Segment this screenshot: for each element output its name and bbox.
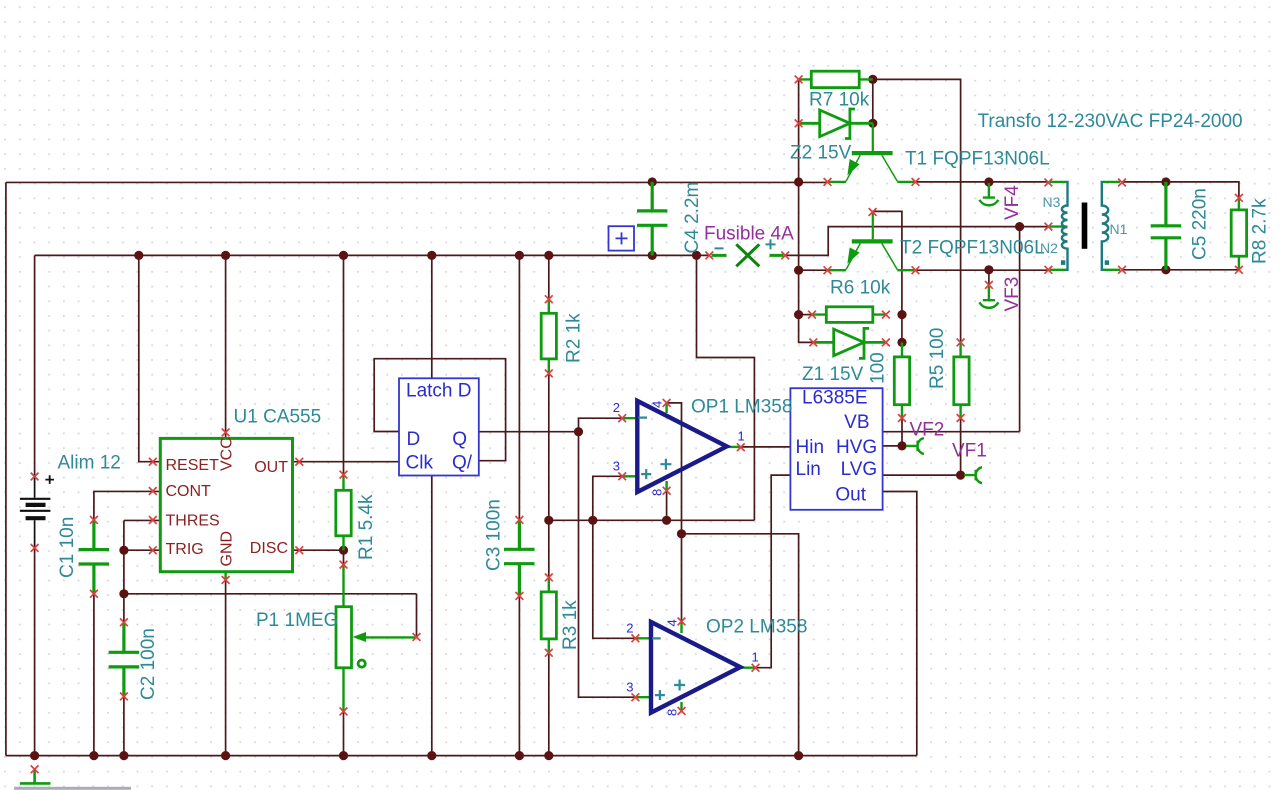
wire pin3col to OP2 pin2 (593, 520, 636, 638)
svg-text:R2 1k: R2 1k (564, 313, 585, 363)
node wiper junction (119, 589, 128, 598)
probe VF1 (964, 467, 982, 483)
svg-text:VF1: VF1 (952, 441, 987, 462)
wire T2 emitter row (799, 269, 828, 271)
wire DISC row (293, 550, 344, 564)
op-amp OP1 pin stubs (622, 403, 741, 491)
wire Out row down to rail (883, 492, 917, 756)
svg-text:DISC: DISC (250, 540, 288, 557)
svg-text:TRIG: TRIG (166, 541, 204, 558)
svg-text:1: 1 (738, 429, 745, 444)
wire CONT to C1 (94, 491, 160, 519)
wire wiper row (124, 594, 417, 637)
wire Latch bottom column (431, 476, 433, 756)
wire left border vertical (5, 182, 7, 755)
svg-text:4: 4 (665, 619, 680, 626)
IC Latch D box (399, 378, 479, 475)
wire N1 bottom to C5 R8 (1122, 269, 1239, 271)
wire R7 right to R5 top (873, 79, 961, 342)
IC L6385E box (790, 388, 882, 510)
resistor R1 5.4k (336, 475, 351, 551)
wire T1 collector to N3 (916, 181, 1049, 183)
winding N3 N2 left (1062, 182, 1068, 270)
svg-text:CONT: CONT (166, 483, 212, 500)
svg-text:Z2 15V: Z2 15V (790, 143, 852, 164)
svg-text:R8 2.7k: R8 2.7k (1250, 198, 1271, 264)
svg-text:LVG: LVG (841, 459, 878, 480)
winding N1 right (1102, 182, 1108, 270)
node center tap junction (1015, 222, 1024, 231)
wire LVG row (883, 474, 961, 476)
wire RESET column (139, 255, 161, 461)
resistor R5 100 (954, 342, 969, 418)
svg-text:C5 220n: C5 220n (1190, 188, 1211, 260)
node VF3 junction (984, 265, 993, 274)
wire row 520 (549, 519, 755, 521)
node R6 left junction (794, 310, 803, 319)
resistor 100 (894, 342, 909, 418)
wire rail1 top +12V (6, 181, 828, 183)
wire R6 left stub (799, 314, 812, 316)
capacitor C3 100n (504, 520, 535, 596)
ground (20, 769, 51, 783)
wire GND column (225, 580, 227, 756)
capacitor C4 2.2m (637, 182, 667, 255)
op-amp OP1 signs (639, 418, 672, 480)
wire fuse+ to center tap (785, 227, 1048, 256)
svg-text:C3 100n: C3 100n (484, 499, 505, 571)
wire OP1 out to Hin (741, 446, 791, 448)
wire OP1 pin8 down (666, 491, 668, 521)
op-amp OP1 LM358 (637, 401, 726, 492)
resistor R8 2.7k (1231, 198, 1246, 270)
svg-text:VF4: VF4 (1002, 185, 1023, 220)
wire C3 column (518, 255, 520, 755)
svg-text:Clk: Clk (406, 453, 434, 474)
transformer stubs (1050, 182, 1120, 270)
svg-text:HVG: HVG (836, 437, 877, 458)
node C5 bottom junction (1161, 265, 1170, 274)
svg-text:Q/: Q/ (452, 453, 473, 474)
zener Z2 15V (799, 109, 873, 139)
wire T2 collector to N2 (916, 269, 1049, 271)
svg-text:OUT: OUT (254, 459, 288, 476)
svg-text:N1: N1 (1110, 221, 1128, 237)
wire OP1 pin3 column (593, 476, 622, 520)
svg-text:3: 3 (613, 459, 620, 474)
svg-text:2: 2 (613, 400, 620, 415)
wire HVG row (883, 445, 902, 447)
polarity squares (1061, 260, 1065, 265)
svg-text:N3: N3 (1043, 194, 1061, 210)
svg-text:R6 10k: R6 10k (830, 278, 891, 299)
wire R7 Z2 left column (799, 79, 814, 342)
wire Latch Q output (479, 431, 579, 433)
svg-text:C2 100n: C2 100n (138, 628, 159, 700)
wire Z2 to T1 base segment (872, 79, 874, 123)
svg-text:Fusible 4A: Fusible 4A (704, 224, 794, 245)
wire Latch top column (431, 255, 433, 378)
svg-text:Lin: Lin (796, 459, 821, 480)
node Q junction (574, 427, 583, 436)
node T2 emitter junction (794, 266, 803, 275)
svg-text:3: 3 (626, 680, 633, 695)
node pin4 row junction (677, 529, 686, 538)
svg-text:U1 CA555: U1 CA555 (234, 407, 322, 428)
svg-text:OP1 LM358: OP1 LM358 (691, 397, 792, 418)
wire N1 top to C5 R8 (1122, 182, 1239, 198)
svg-text:VF3: VF3 (1002, 277, 1023, 312)
svg-text:L6385E: L6385E (802, 388, 868, 409)
svg-text:VB: VB (844, 412, 869, 433)
grey artifact bar bottom left (14, 787, 131, 790)
node rail2 junctions (134, 251, 143, 260)
wire OP1 pin4 net (667, 403, 799, 756)
svg-text:VF2: VF2 (910, 420, 945, 441)
svg-text:1: 1 (752, 650, 759, 665)
svg-text:Hin: Hin (796, 437, 825, 458)
op-amp OP2 LM358 (651, 622, 740, 713)
svg-text:Out: Out (835, 484, 866, 505)
svg-text:2: 2 (626, 621, 633, 636)
svg-text:R5 100: R5 100 (927, 328, 948, 389)
wire THRES to C2 column (124, 520, 160, 622)
IC U1 CA555 box (160, 438, 292, 571)
capacitor C2 100n (109, 622, 140, 696)
resistor R3 1k (541, 577, 556, 652)
svg-text:8: 8 (650, 489, 665, 496)
svg-text:100: 100 (868, 352, 889, 384)
node HVG junction (897, 441, 906, 450)
svg-text:GND: GND (219, 531, 236, 567)
potentiometer P1 1MEG (336, 565, 415, 712)
node LVG VF1 junction (956, 471, 965, 480)
wire C2 bottom (123, 696, 125, 755)
svg-text:P1 1MEG: P1 1MEG (256, 610, 338, 631)
op-amp OP2 pin stubs (635, 621, 755, 711)
svg-text:Transfo 12-230VAC FP24-2000: Transfo 12-230VAC FP24-2000 (978, 111, 1243, 132)
node R6 Z1 right junctions (897, 310, 906, 319)
probe VF3 (979, 285, 998, 308)
svg-text:8: 8 (665, 709, 680, 716)
svg-text:T2 FQPF13N06L: T2 FQPF13N06L (900, 238, 1045, 259)
svg-text:4: 4 (650, 401, 665, 408)
wire R5 bottom to VF1 (960, 418, 962, 475)
wire battery column bottom (34, 548, 36, 756)
node row520 junctions (544, 516, 553, 525)
node TRIG junction (119, 546, 128, 555)
transistor T1 FQPF13N06L (829, 123, 915, 182)
polarity plus box C4 (609, 226, 635, 250)
op-amp OP2 signs (652, 638, 685, 700)
wire TRIG row (124, 549, 160, 551)
wire rail2 (35, 254, 710, 256)
node DISC R1 P1 junction (339, 546, 348, 555)
svg-text:R3 1k: R3 1k (560, 600, 581, 650)
svg-text:N2: N2 (1040, 240, 1058, 256)
wire battery column top (34, 255, 36, 476)
battery Alim 12 (20, 475, 54, 548)
svg-text:R7 10k: R7 10k (809, 90, 870, 111)
svg-text:Latch D: Latch D (406, 381, 471, 402)
svg-text:OP2 LM358: OP2 LM358 (706, 617, 807, 638)
core (1082, 203, 1088, 249)
wire P1 bottom (343, 711, 345, 755)
svg-text:Q: Q (452, 429, 467, 450)
zener Z1 15V (813, 328, 886, 358)
U1 GND stub (224, 572, 226, 580)
wire 100 resistor bottom to HVG (901, 418, 903, 446)
svg-text:Alim 12: Alim 12 (58, 453, 121, 474)
svg-text:Z1 15V: Z1 15V (802, 364, 864, 385)
wire VB row and column (883, 227, 1020, 432)
wire R1 column from rail2 (343, 255, 345, 474)
svg-text:R1 5.4k: R1 5.4k (356, 494, 377, 560)
wire Q to OP1 pin2 (579, 418, 623, 432)
wire T2 base jog (873, 211, 902, 342)
svg-text:D: D (407, 429, 421, 450)
wire bottom rail ground (6, 755, 917, 757)
transistor T2 FQPF13N06L (829, 213, 915, 270)
svg-text:T1 FQPF13N06L: T1 FQPF13N06L (905, 149, 1050, 170)
capacitor C5 220n (1151, 182, 1182, 270)
resistor R7 10k (799, 71, 873, 87)
svg-text:THRES: THRES (166, 512, 220, 529)
wire R2 column (548, 255, 550, 755)
capacitor C1 10n (79, 520, 110, 594)
node bottom rail junctions (30, 751, 39, 760)
wire Lin to OP2 out (756, 475, 791, 668)
node rail1 junctions (648, 177, 657, 186)
resistor R2 1k (541, 299, 556, 373)
wire VF3 stub (988, 270, 990, 285)
svg-text:C1 10n: C1 10n (57, 517, 78, 578)
probe VF4 (979, 183, 998, 205)
fuse polarity signs (715, 239, 776, 249)
wire jog rail2 to row520 (697, 255, 755, 520)
transformer Transfo 12-230VAC FP24-2000 (1061, 182, 1109, 270)
svg-text:VCC: VCC (219, 437, 236, 471)
fuse Fusible 4A (712, 244, 784, 266)
wire VCC column (225, 255, 227, 438)
probe VF2 (906, 438, 924, 454)
resistor R6 10k (812, 307, 886, 323)
svg-text:C4 2.2m: C4 2.2m (682, 182, 703, 254)
svg-text:RESET: RESET (166, 457, 220, 474)
wire Latch Q/ feedback loop to D (374, 359, 505, 461)
wire OUT row to Latch Clk (293, 461, 400, 463)
wire C1 bottom (93, 594, 95, 756)
node R7 Z2 right junctions (868, 75, 877, 84)
wire Q column to OP2 pin3 (579, 432, 636, 698)
